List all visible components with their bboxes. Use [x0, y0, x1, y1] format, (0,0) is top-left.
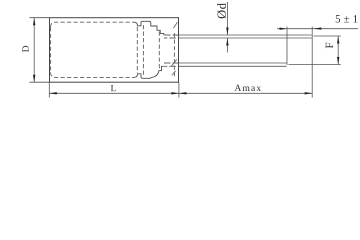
5±1 extension line short lead end: [286, 27, 288, 66]
dimension L line: [49, 92, 179, 94]
dimension Amax arrow right: [305, 92, 313, 94]
label Amax: [234, 85, 261, 91]
element winding hidden outline left/top/bottom (dashed): [51, 22, 134, 77]
dimension Amax line: [179, 92, 312, 94]
dimension 5±1 line left tail: [277, 28, 287, 30]
label L: [111, 85, 116, 91]
dimension L / Amax shared extension: [178, 82, 180, 97]
dimension 5±1 arrow right-pointing: [280, 28, 288, 30]
dimension Ød arrow down: [226, 28, 228, 36]
F extension bottom lead centerline: [289, 64, 341, 66]
bung outer face dashed vertical: [173, 33, 175, 77]
top lead hidden part (dashed): [164, 34, 179, 36]
top lead: [179, 34, 312, 36]
dimension 5±1 right tail: [312, 28, 358, 30]
label 5±1: [336, 15, 358, 22]
bottom lead hidden part (dashed): [164, 62, 179, 64]
dimension Ød line below: [226, 38, 228, 53]
crimp ring face dashed vertical: [142, 25, 144, 76]
dimension L arrow right: [171, 92, 179, 94]
dimension Ød arrow up: [226, 38, 228, 46]
dimension D extension top: [30, 17, 50, 19]
dimension 5±1 arrow left-pointing: [314, 27, 322, 29]
dimension F arrow up: [337, 36, 339, 44]
dimension Ød line above: [226, 2, 228, 35]
dimension D line: [33, 18, 35, 83]
end seal hatch stroke top: [173, 22, 177, 28]
end seal hatch stroke bottom: [172, 71, 176, 76]
bottom lead: [179, 62, 287, 64]
dimension 5±1 middle line: [287, 28, 312, 30]
F extension top lead centerline: [314, 35, 341, 37]
bung crimp profile bottom (hidden): [134, 66, 164, 78]
dimension Amax arrow left: [179, 92, 187, 94]
dimension F line: [337, 36, 339, 65]
bung inner face dashed vertical: [158, 32, 160, 69]
dimension D arrow down: [33, 75, 35, 83]
dimension D extension bottom: [30, 81, 50, 83]
element end face dashed vertical: [136, 27, 138, 73]
dimension L extension left: [48, 82, 50, 97]
bung crimp profile top (hidden): [134, 21, 164, 35]
label F: [326, 43, 333, 48]
dimension L arrow left: [49, 92, 57, 94]
end seal hatch stroke middle: [171, 59, 177, 66]
dimension F arrow down: [337, 57, 339, 65]
label D: [22, 46, 28, 52]
label Ød: [217, 3, 226, 18]
capacitor can outline: [50, 18, 179, 83]
extension line lead end (Amax right / 5±1): [311, 27, 313, 98]
dimension D arrow up: [33, 18, 35, 26]
